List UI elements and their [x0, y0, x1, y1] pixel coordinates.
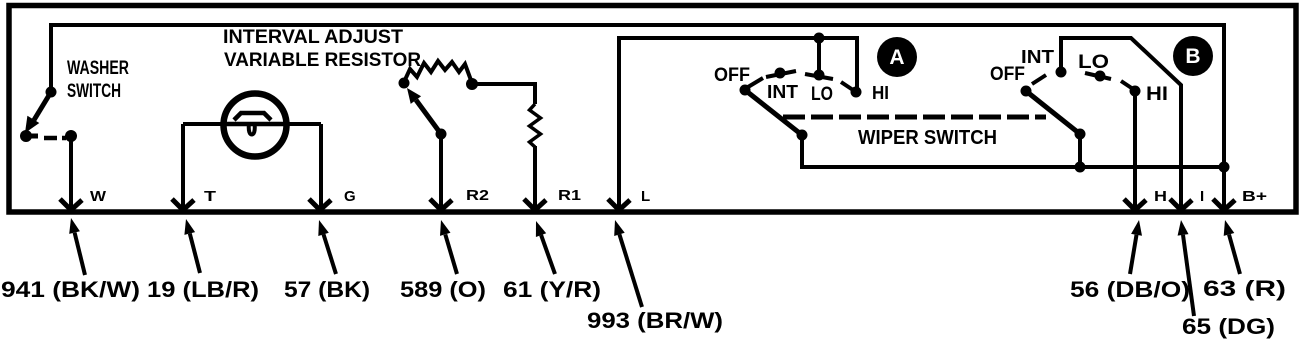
- svg-text:19 (LB/R): 19 (LB/R): [147, 277, 259, 302]
- svg-text:L: L: [641, 188, 650, 205]
- svg-text:G: G: [344, 188, 356, 205]
- wire terminal L and section A top rail: [619, 38, 857, 208]
- svg-text:HI: HI: [872, 83, 889, 103]
- wire terminal W: [69, 136, 73, 208]
- node arm B junction: [1075, 162, 1086, 173]
- terminal arrowheads (inside box): [60, 199, 1235, 210]
- svg-text:HI: HI: [1146, 84, 1168, 105]
- svg-text:I: I: [1200, 188, 1204, 205]
- wiper switch section B contacts: [1032, 67, 1141, 97]
- svg-text:OFF: OFF: [714, 65, 750, 86]
- svg-text:LO: LO: [811, 84, 833, 105]
- resistor R1 (vertical zigzag): [530, 104, 541, 147]
- svg-text:WASHER: WASHER: [67, 58, 129, 79]
- svg-text:B: B: [1185, 45, 1200, 68]
- wire section B arm to bus: [1078, 134, 1082, 167]
- svg-text:OFF: OFF: [990, 64, 1025, 85]
- svg-text:R1: R1: [558, 187, 581, 204]
- wire terminal R2: [439, 134, 443, 208]
- svg-text:941 (BK/W): 941 (BK/W): [1, 277, 140, 302]
- wire arm bus to B+: [802, 135, 1224, 167]
- wire number labels: [1, 276, 1286, 339]
- svg-text:993 (BR/W): 993 (BR/W): [587, 308, 723, 333]
- svg-text:589 (O): 589 (O): [400, 277, 486, 302]
- variable resistor wiper arm (to R2): [407, 88, 447, 140]
- node LO feed (section A): [814, 33, 825, 44]
- svg-text:VARIABLE RESISTOR: VARIABLE RESISTOR: [224, 49, 421, 71]
- svg-text:INT: INT: [1021, 47, 1054, 67]
- svg-text:SWITCH: SWITCH: [67, 81, 121, 102]
- svg-text:57 (BK): 57 (BK): [284, 277, 370, 302]
- wire section B INT to terminal I: [1061, 38, 1181, 208]
- mechanical link (dashed): [783, 115, 1046, 120]
- interval governor (circle with lamp symbol): [224, 94, 287, 157]
- labels section B positions: [990, 47, 1168, 105]
- svg-text:LO: LO: [1078, 52, 1109, 73]
- svg-text:INTERVAL ADJUST: INTERVAL ADJUST: [223, 26, 403, 48]
- wire terminal R1: [533, 146, 537, 208]
- wiper switch section A contacts: [748, 68, 862, 98]
- svg-text:T: T: [204, 188, 216, 205]
- svg-text:W: W: [90, 188, 107, 205]
- labels section A positions: [714, 65, 889, 105]
- badge B: [1173, 36, 1213, 76]
- svg-text:R2: R2: [466, 187, 489, 204]
- svg-text:65 (DG): 65 (DG): [1182, 314, 1275, 339]
- wire T to G through governor: [183, 122, 321, 126]
- wire terminal H: [1133, 91, 1137, 208]
- svg-text:H: H: [1154, 188, 1167, 205]
- wire resistor feed: [472, 84, 535, 104]
- wire terminal G: [319, 124, 323, 208]
- variable resistor (zigzag): [399, 61, 479, 90]
- wiper switch section B arm: [1021, 86, 1086, 140]
- badge A: [877, 37, 917, 77]
- wire B+ feed (washer switch to B+ terminal): [51, 25, 1224, 208]
- label WASHER SWITCH: [67, 58, 129, 102]
- terminal labels: [90, 187, 1267, 205]
- svg-text:INT: INT: [767, 82, 798, 102]
- component box (switch assembly outline): [9, 6, 1296, 213]
- wiper switch section A arm: [740, 85, 808, 141]
- svg-text:B+: B+: [1242, 188, 1267, 205]
- node B+ junction: [1219, 162, 1230, 173]
- wire terminal T: [181, 124, 185, 208]
- external wire arrows: [75, 233, 1240, 316]
- svg-text:61 (Y/R): 61 (Y/R): [503, 277, 601, 302]
- svg-text:63 (R): 63 (R): [1203, 276, 1286, 301]
- svg-text:A: A: [889, 46, 904, 69]
- svg-text:WIPER SWITCH: WIPER SWITCH: [858, 127, 997, 149]
- label INTERVAL ADJUST VARIABLE RESISTOR: [223, 26, 421, 71]
- washer switch: [20, 87, 77, 143]
- svg-text:56 (DB/O): 56 (DB/O): [1070, 277, 1190, 302]
